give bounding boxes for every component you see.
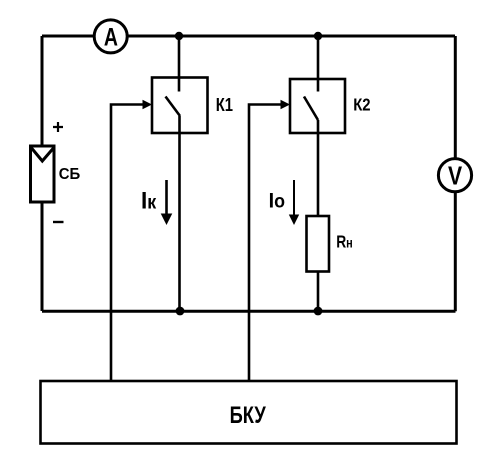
node junction dot K1 top — [175, 32, 183, 40]
wire K1 input drop — [178, 36, 181, 92]
wire K2 control line from BKU — [249, 105, 283, 382]
label SB plus terminal — [53, 122, 63, 132]
wire K2 input drop — [317, 36, 320, 92]
ammeter A — [94, 20, 127, 53]
svg-text:Rн: Rн — [336, 233, 353, 252]
node junction dot bottom right (Rn leg) — [314, 307, 323, 316]
current arrow I0 — [289, 180, 299, 225]
wire K1 output to bottom bus — [178, 116, 181, 311]
svg-text:К2: К2 — [353, 96, 370, 115]
svg-text:V: V — [448, 161, 462, 189]
wire K1 control line from BKU — [111, 105, 145, 382]
switch K2 — [290, 79, 345, 133]
arrowhead into K2 — [281, 100, 291, 109]
wire K2 output to load resistor — [317, 120, 320, 216]
control unit BKU — [41, 381, 457, 444]
svg-text:БКУ: БКУ — [230, 401, 267, 429]
svg-text:Iк: Iк — [141, 187, 157, 214]
switch K1 — [152, 78, 208, 134]
wire top bus from left corner to right corner — [42, 35, 455, 38]
resistor Rn (load) — [307, 216, 330, 272]
label SB minus terminal — [53, 221, 64, 223]
voltmeter V — [438, 159, 471, 192]
node junction dot K2 top — [314, 32, 322, 40]
svg-text:A: A — [104, 23, 118, 51]
svg-text:Iо: Iо — [269, 190, 285, 213]
svg-text:К1: К1 — [216, 95, 233, 116]
wire Rn to bottom bus — [317, 272, 320, 312]
wire bottom return bus — [42, 310, 456, 313]
wire left branch (solar battery leg) — [41, 36, 44, 311]
wire right branch (voltmeter leg) — [454, 36, 457, 311]
solar battery SB — [31, 146, 55, 202]
arrowhead into K1 — [143, 100, 153, 109]
svg-text:СБ: СБ — [59, 166, 81, 183]
current arrow Ik — [161, 180, 173, 225]
node junction dot bottom left (K1 leg) — [176, 307, 185, 316]
